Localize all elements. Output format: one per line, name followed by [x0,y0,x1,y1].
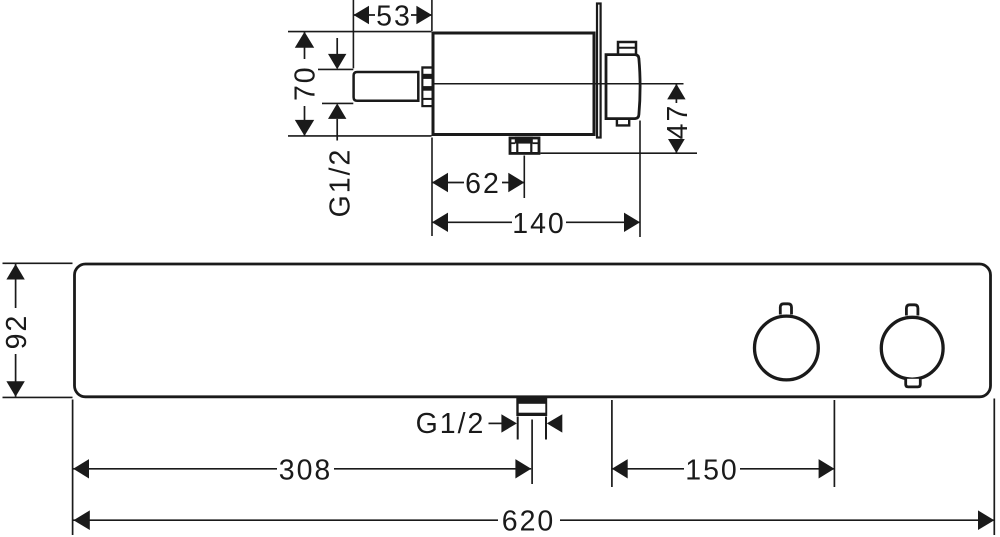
knob 2 bottom tab [905,379,921,387]
svg-text:62: 62 [465,168,501,200]
svg-text:47: 47 [662,104,694,140]
spout thread hatch [421,66,432,107]
handle knob 2 [881,317,943,379]
dimension G1/2 (front outlet) [416,408,563,440]
dimension 150 [612,455,835,487]
connector top tab [618,42,636,55]
svg-text:G1/2: G1/2 [325,148,357,218]
wall plate [597,4,601,138]
knob 1 top tab [780,303,793,315]
dimension 53 [353,0,432,68]
spout tube [354,72,419,101]
left extension line (308/620) [72,400,74,536]
wall connector block [606,55,640,119]
150 left extension [611,400,613,487]
outlet nut (front view) [516,398,547,416]
body parting line / 47 top extension [434,83,684,85]
svg-text:G1/2: G1/2 [416,408,486,440]
handle knob 1 [755,316,819,380]
svg-text:308: 308 [279,455,333,487]
svg-text:53: 53 [376,1,412,33]
outlet centerline [531,420,533,485]
dimension G1/2 (spout) [318,38,357,217]
dimension 620 [73,506,995,537]
outlet nut (top view) [510,137,539,154]
svg-text:150: 150 [685,455,739,487]
connector bottom tab [617,120,629,125]
svg-text:92: 92 [1,314,33,350]
dimension 308 [73,455,532,487]
right extension line (620) [993,399,995,536]
dimension 47 [541,84,698,153]
knob 2 top tab [906,304,919,315]
dimension 62 [432,138,524,237]
front bar [75,264,991,397]
dimension 70 [288,32,432,136]
150 right extension [833,400,835,487]
svg-text:70: 70 [290,65,322,101]
dimension 92 [1,263,73,397]
svg-text:140: 140 [512,208,566,240]
body (top view) [433,33,594,135]
dimension 140 [432,121,640,240]
svg-text:620: 620 [502,506,556,537]
